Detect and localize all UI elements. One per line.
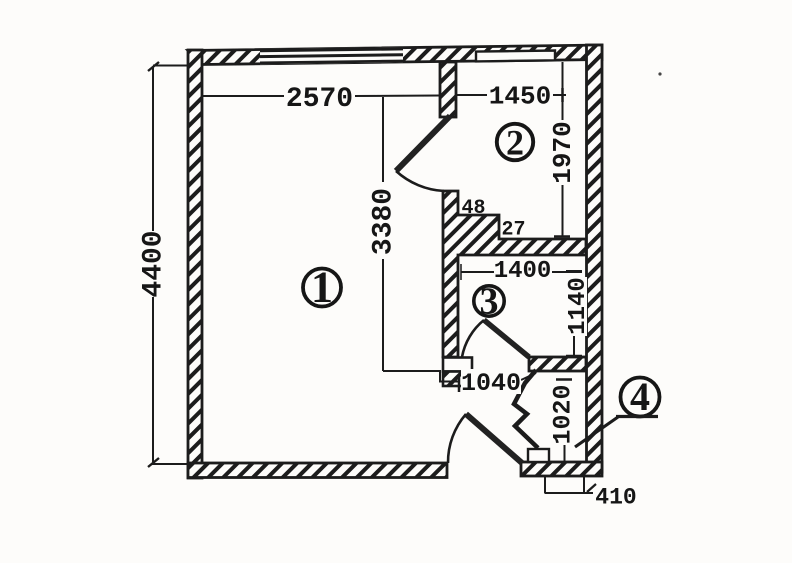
dim 410 bracket [544,477,546,494]
dim 1970 line [562,185,564,237]
wall foot below room3 jamb [443,372,470,387]
svg-text:1020: 1020 [548,384,577,444]
svg-text:410: 410 [595,485,636,511]
interior wall rooms 1/2/3 with 48-27 steps [443,191,586,357]
dim text 48 [461,197,485,220]
wall bottom room4 [521,462,602,476]
svg-text:4400: 4400 [138,230,169,297]
wall bottom room3 [529,357,586,371]
dim text 27 [501,219,525,242]
dim text 1970 [548,120,578,185]
wall top [188,45,602,65]
door D4 room1 bottom: leaf [466,414,522,463]
window W1 top wall [260,47,403,64]
dim text 1450 [487,82,553,112]
svg-text:4: 4 [630,374,650,419]
dim 3380 line [382,97,384,182]
svg-text:1400: 1400 [494,258,552,285]
extension line right top [562,62,564,121]
dim text 1400 [494,257,552,285]
dim 1020 line [556,378,572,381]
dim 2570 line [203,95,285,97]
dim 1450 line [455,94,488,96]
svg-text:3: 3 [480,280,499,322]
dim 4400 line [152,67,154,232]
room label circle 2 [497,122,533,162]
svg-text:2570: 2570 [286,84,353,115]
wall bottom room1 [188,463,447,478]
dim 1400 line [461,271,494,273]
room label circle 1 [303,263,341,312]
window W2 top wall room 2 [476,51,555,62]
door D4 arc [448,414,466,463]
wall stub A door 1-2 upper jamb [440,62,456,117]
dim text 1140 [564,277,592,336]
dim text 4400 [138,230,169,297]
wall right [587,45,603,472]
dim text 1040 [461,369,521,398]
svg-text:27: 27 [501,219,525,242]
svg-text:48: 48 [461,197,485,220]
dim 1040 elbow [383,371,459,382]
svg-text:1: 1 [311,263,333,312]
dim text 1020 [548,384,577,445]
zigzag break symbol room4 [514,370,538,448]
leader line circle 4 [575,417,618,447]
door D3 room3: leaf [484,320,529,357]
svg-text:1970: 1970 [548,121,578,183]
svg-text:2: 2 [506,122,524,162]
svg-text:1140: 1140 [565,277,592,335]
speck artifact [658,72,661,75]
dim text 2570 [284,83,355,115]
dim text 410 [595,485,636,511]
room label circle 4 [621,374,660,419]
room label circle 3 [474,280,504,322]
room3 door left jamb white [443,358,472,372]
wall left [188,50,202,478]
dim 1140 line [573,335,575,356]
svg-text:3380: 3380 [368,188,399,255]
door D3 arc [462,320,484,357]
svg-text:1040: 1040 [461,369,521,398]
svg-text:1450: 1450 [489,82,551,112]
door D1 arc [396,171,444,191]
door D1 rooms1-2: leaf [396,116,450,171]
dimension lines [148,62,596,494]
dim text 3380 [367,184,399,259]
room4 small white step on bottom wall [528,449,549,462]
